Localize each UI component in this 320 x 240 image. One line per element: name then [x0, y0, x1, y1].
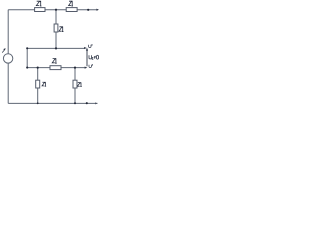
resistor Z1 top-right — [66, 8, 77, 12]
label Z shunt1 — [42, 82, 46, 86]
node label output top — [89, 45, 91, 48]
wire middle rail — [27, 47, 85, 49]
node rail2 shunt2 — [74, 67, 76, 69]
node label output bottom — [89, 65, 91, 68]
resistor Z shunt1 — [36, 80, 40, 88]
label Z1 top-right — [69, 1, 73, 6]
source U_q — [3, 54, 12, 63]
wire mid shunt branch — [55, 10, 57, 49]
label U2 != 0 — [89, 55, 99, 59]
node bottom shunt2 — [74, 102, 76, 104]
node rail2 shunt1 — [37, 67, 39, 69]
wire rail2 — [27, 67, 85, 69]
terminal arrow top rail end — [96, 9, 99, 11]
label Z rail2 series — [52, 58, 57, 63]
voltage arrow U2 — [86, 48, 88, 67]
resistor Z mid vertical — [54, 24, 58, 32]
resistor Z1 top-left — [35, 8, 45, 12]
label Z mid vertical — [59, 27, 64, 32]
wire left drop — [26, 48, 28, 67]
terminal arrow bottom rail end — [95, 102, 98, 104]
node bottom right — [86, 102, 88, 104]
node bottom shunt1 — [37, 102, 39, 104]
node top T1 — [55, 9, 57, 11]
node middle rail left corner — [26, 47, 28, 49]
node rail2 left corner — [26, 67, 28, 69]
wire left column — [7, 10, 9, 54]
wire shunt2 — [74, 68, 76, 104]
resistor Z rail2 series — [50, 66, 61, 70]
node middle rail center — [55, 47, 57, 49]
wire top rail — [8, 9, 98, 11]
label Z shunt2 — [77, 82, 81, 86]
source arrow — [2, 48, 5, 53]
resistor Z shunt2 — [73, 80, 77, 88]
wire shunt1 — [37, 68, 39, 104]
terminal arrow middle rail end — [84, 47, 87, 49]
terminal arrow rail2 end — [85, 67, 88, 69]
wire bottom rail — [8, 102, 97, 104]
label Z1 top-left — [36, 1, 41, 6]
node top right — [87, 9, 89, 11]
